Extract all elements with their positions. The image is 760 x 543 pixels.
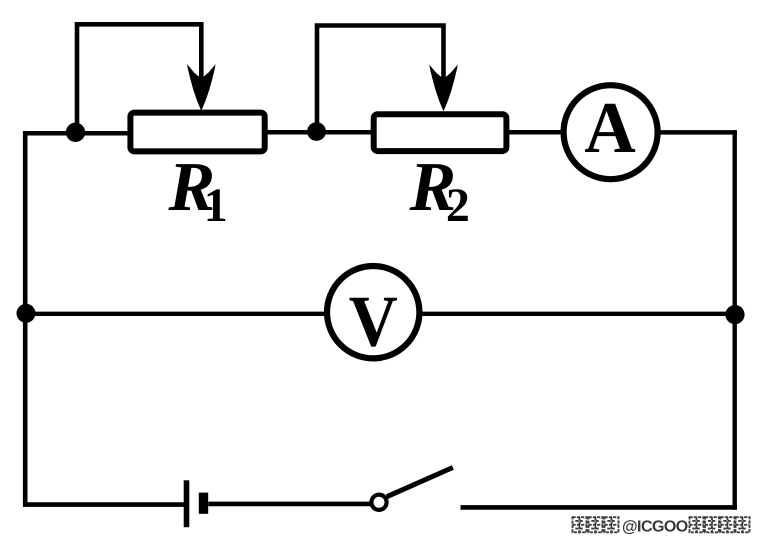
wire: bottom rail battery to switch <box>208 502 371 507</box>
wire: left vertical side <box>23 131 28 507</box>
svg-text:@ICGOO: @ICGOO <box>622 519 688 536</box>
R2 wiper arrowhead <box>430 66 457 110</box>
svg-text:A: A <box>584 87 636 168</box>
watermark text: sohu id ICGOO (fake CJK glyph shapes + latin) <box>573 517 750 535</box>
junction dot: R1 tap on top rail <box>66 123 85 142</box>
wire: top rail left segment <box>23 131 129 136</box>
switch S1 lever (open) <box>387 468 453 497</box>
R1 wiper arrowhead <box>188 66 215 111</box>
R2 wiper tap wire <box>317 26 444 132</box>
wire: top rail between R2 and ammeter <box>508 130 563 135</box>
label R2 <box>409 149 470 232</box>
wire: right vertical side <box>733 130 737 509</box>
wire: top rail ammeter to right corner <box>658 130 737 135</box>
svg-text:2: 2 <box>446 179 470 232</box>
svg-text:V: V <box>349 280 398 361</box>
svg-text:1: 1 <box>204 179 228 232</box>
voltmeter V <box>327 266 419 361</box>
wire: top rail between R1 and R2 <box>266 130 372 135</box>
wire: middle rail right of voltmeter <box>419 312 737 316</box>
junction dot: R2 tap on top rail <box>307 122 326 141</box>
wire: middle rail left of voltmeter <box>23 312 327 316</box>
ammeter A <box>564 85 658 179</box>
wire: bottom rail switch to right corner <box>461 505 738 510</box>
label R1 <box>168 149 228 232</box>
switch S1 pivot ring <box>371 495 386 510</box>
junction dot: middle rail left <box>17 304 36 323</box>
junction dot: middle rail right <box>725 305 744 324</box>
battery BT1 positive plate (long thin) <box>184 480 190 527</box>
wire: bottom rail left of battery <box>23 502 185 507</box>
rheostat R1 body <box>130 113 264 152</box>
rheostat R2 body <box>374 114 507 151</box>
battery BT1 negative plate (short thick) <box>199 493 208 514</box>
R1 wiper tap wire <box>77 24 201 132</box>
